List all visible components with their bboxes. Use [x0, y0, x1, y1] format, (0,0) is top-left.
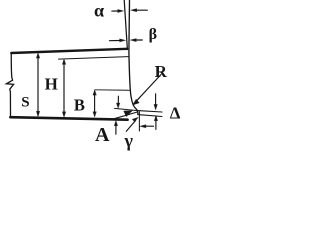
svg-text:A: A: [95, 124, 110, 146]
dimension A line: [94, 91, 96, 115]
gamma flank arrowhead: [124, 111, 133, 117]
small dimension down arrow at tip shoulder: [117, 96, 119, 103]
svg-text:B: B: [74, 96, 85, 115]
gamma leader arrowhead: [132, 117, 138, 122]
vertical extension line at tip end: [138, 112, 140, 131]
svg-text:α: α: [94, 0, 104, 20]
B top arrowhead: [62, 59, 65, 64]
dimension A extension line: [95, 89, 130, 92]
svg-text:γ: γ: [124, 131, 134, 151]
svg-text:H: H: [45, 75, 58, 94]
delta dimension up arrow: [155, 121, 157, 129]
svg-text:R: R: [155, 62, 168, 81]
A bottom arrowhead: [93, 112, 96, 117]
wear land strip top line extension: [115, 108, 138, 110]
dimension B extension line: [59, 57, 129, 60]
alpha left arrow: [112, 10, 119, 12]
alpha right arrow: [136, 9, 147, 11]
horizontal arrow pointing left at tip extension: [145, 125, 154, 127]
blade front edge line with tip radius R curve: [129, 0, 138, 114]
beta right arrow: [136, 39, 142, 41]
svg-text:Δ: Δ: [170, 103, 181, 122]
H top arrowhead: [36, 53, 39, 58]
blade body left edge with break: [6, 53, 13, 116]
B bottom arrowhead: [62, 112, 65, 117]
A top arrowhead: [93, 90, 96, 95]
small dimension up arrow below bottom line: [115, 125, 117, 135]
svg-text:S: S: [21, 94, 29, 110]
blade body bottom line: [10, 117, 127, 120]
dimension H line: [37, 55, 39, 116]
wear land strip top line: [138, 111, 162, 112]
beta left arrow: [109, 40, 119, 42]
svg-text:β: β: [149, 26, 157, 43]
delta dimension down arrow: [155, 94, 157, 105]
bevel front face line (left of wedge): [124, 0, 127, 50]
R leader arrowhead: [133, 99, 140, 105]
H bottom arrowhead: [36, 111, 39, 116]
gamma leader line: [126, 121, 135, 131]
blade body top surface line: [11, 49, 127, 53]
dimension B line: [63, 61, 65, 116]
wear land strip bottom line: [138, 115, 162, 117]
R leader line: [135, 75, 161, 103]
gamma worn flank line: [113, 112, 138, 119]
